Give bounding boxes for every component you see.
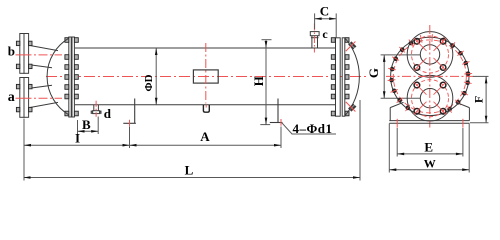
svg-text:b: b xyxy=(8,44,15,59)
dimension C xyxy=(315,13,337,37)
end view nozzle b circles xyxy=(407,32,453,78)
saddle support S2 xyxy=(270,99,283,123)
nozzle d centerline xyxy=(95,101,97,117)
svg-text:B: B xyxy=(82,117,91,132)
svg-text:4–Φd1: 4–Φd1 xyxy=(293,121,333,136)
end view main bolt circle (red) xyxy=(393,40,466,113)
svg-text:H: H xyxy=(251,76,266,86)
end view saddle xyxy=(389,102,469,123)
dimension W xyxy=(389,124,469,173)
nozzle b centerline xyxy=(16,54,63,56)
nozzle d (drain) xyxy=(91,105,101,114)
end view centerlines xyxy=(429,25,431,128)
svg-text:d: d xyxy=(104,106,112,121)
svg-text:a: a xyxy=(8,90,15,105)
dimension A xyxy=(130,127,282,149)
nozzle a centerline xyxy=(16,97,63,99)
end view anchor bolt centerlines xyxy=(396,119,398,128)
right girth flange bolts xyxy=(331,38,349,116)
end view nozzle a bolt holes xyxy=(414,82,446,114)
shell xyxy=(75,48,336,105)
left girth flange bolts xyxy=(65,38,78,116)
svg-text:F: F xyxy=(472,96,486,103)
dimension I xyxy=(24,119,130,181)
svg-text:ΦD: ΦD xyxy=(143,74,155,91)
end view nozzle b bolt holes xyxy=(414,39,446,71)
right head top 45 stub xyxy=(349,42,356,49)
svg-text:G: G xyxy=(366,68,381,78)
mid bottom lug xyxy=(203,105,209,112)
dimension E xyxy=(397,128,463,157)
right head xyxy=(345,38,360,116)
nameplate centerline xyxy=(205,43,207,104)
right girth flange xyxy=(336,38,345,116)
end view red radial ticks at bolt holes xyxy=(388,34,473,113)
svg-text:C: C xyxy=(320,4,329,19)
dimension F xyxy=(470,76,489,122)
svg-text:L: L xyxy=(185,162,194,177)
svg-text:c: c xyxy=(322,27,328,41)
left girth flange xyxy=(69,37,75,117)
end view outer flange circle xyxy=(391,37,469,115)
nozzle a xyxy=(20,78,58,118)
saddle support S1 xyxy=(123,99,136,124)
dimension G xyxy=(381,55,421,98)
dimension B xyxy=(78,117,99,135)
svg-text:E: E xyxy=(424,140,433,155)
svg-text:W: W xyxy=(424,157,436,171)
end view main flange bolt holes xyxy=(389,41,470,112)
dimension L xyxy=(24,100,361,181)
right head bottom 45 stub xyxy=(349,104,356,111)
left head (bonnet) xyxy=(47,38,69,115)
nozzle c centerline xyxy=(313,24,315,53)
dimension H xyxy=(260,40,271,125)
end view nozzle a circles xyxy=(407,75,453,121)
svg-text:I: I xyxy=(75,131,80,146)
nameplate xyxy=(193,70,218,83)
main centerline xyxy=(46,76,368,78)
dimension PhiD xyxy=(155,48,157,105)
nozzle c xyxy=(310,32,319,48)
nozzle b xyxy=(20,34,58,74)
label 4-Phid1 xyxy=(281,122,336,134)
svg-text:A: A xyxy=(200,129,210,144)
